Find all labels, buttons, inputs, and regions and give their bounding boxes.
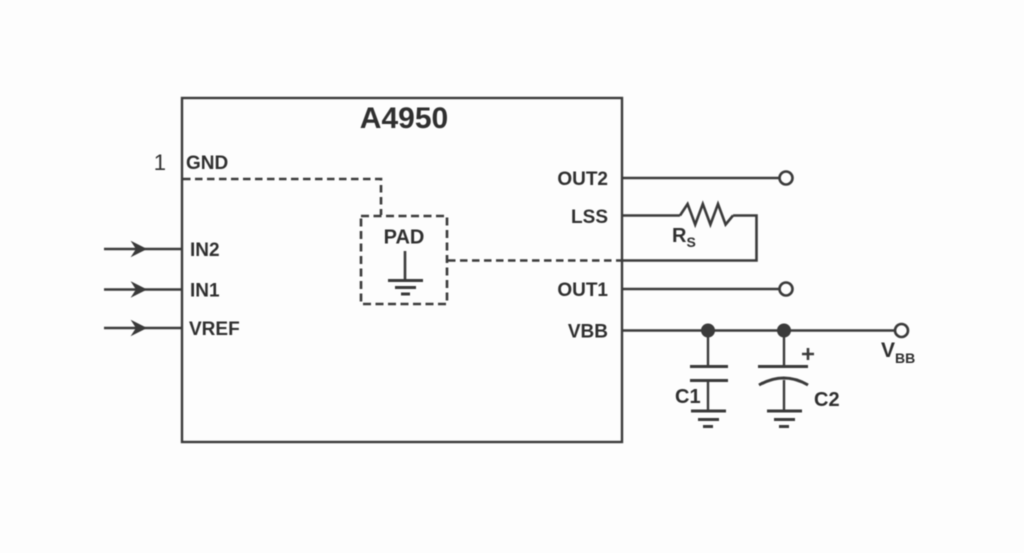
ground (PAD) [388, 251, 423, 294]
svg-text:C1: C1 [675, 386, 701, 408]
wire: PAD dashed net to LSS return node [448, 259, 622, 262]
svg-text:GND: GND [186, 153, 228, 174]
wire OUT2 [622, 177, 779, 179]
input arrow IN1 [104, 283, 182, 297]
svg-text:IN2: IN2 [190, 240, 220, 261]
junction node at C2 [778, 324, 791, 337]
svg-text:OUT1: OUT1 [557, 280, 608, 301]
svg-text:IN1: IN1 [190, 281, 220, 302]
wire: GND dashed net from pin 1 to PAD [183, 179, 381, 215]
input arrow IN2 [104, 242, 182, 256]
input arrow VREF [104, 321, 182, 335]
ground (C2) [767, 411, 802, 427]
capacitor C1 [690, 330, 728, 410]
svg-text:VREF: VREF [189, 319, 240, 340]
svg-text:OUT2: OUT2 [557, 169, 608, 190]
svg-text:RS: RS [672, 225, 696, 250]
wire VBB [622, 329, 895, 331]
svg-text:VBB: VBB [568, 322, 608, 343]
ground (C1) [691, 411, 726, 427]
terminal OUT2 (open circle) [780, 172, 793, 185]
terminal OUT1 (open circle) [780, 283, 793, 296]
wire LSS to resistor [622, 214, 680, 216]
wire: resistor to return loop [623, 216, 757, 261]
svg-text:VBB: VBB [881, 339, 915, 366]
thermal pad PAD (dashed box) [361, 216, 447, 304]
terminal VBB (open circle) [895, 324, 908, 337]
svg-text:LSS: LSS [571, 207, 608, 228]
resistor RS [680, 204, 733, 225]
svg-text:PAD: PAD [384, 227, 425, 249]
wire OUT1 [622, 288, 779, 290]
capacitor C2 (polarized) [758, 330, 814, 410]
svg-text:A4950: A4950 [360, 102, 448, 135]
junction node at C1 [702, 324, 715, 337]
IC U1 A4950 body [182, 98, 622, 442]
svg-text:C2: C2 [814, 389, 840, 411]
svg-text:1: 1 [154, 150, 166, 175]
